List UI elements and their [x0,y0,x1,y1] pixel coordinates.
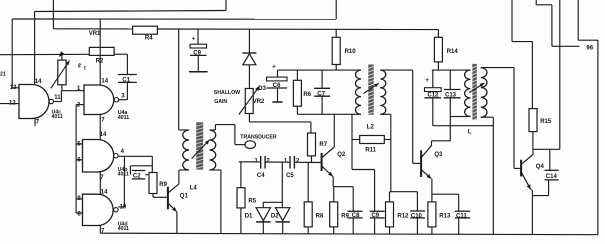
svg-text:R12: R12 [397,213,409,219]
resistor R12 [386,202,410,227]
wire R8 top lead [307,162,309,202]
wire pin13 stub [12,87,19,89]
wire T2 sec to Q4 base [513,68,515,169]
wire C2 right lead [145,174,148,176]
transformer L4 core (laminated core) [196,122,203,169]
wire supply bus left [53,28,132,30]
wire VR1 bottom lead [61,85,63,91]
wire diode top link [263,201,282,203]
wire topright jog D [578,39,598,41]
wire C2 left lead [129,166,131,175]
wire D1 top lead [262,202,264,207]
capacitor C14 [545,170,559,180]
wire C7 bottom lead [321,96,323,114]
wire right edge down [597,40,599,235]
wire pin12 input [0,103,19,105]
resistor R7 [308,133,328,156]
wire C10 bottom lead [416,218,418,234]
wire Q4 collector up [532,149,534,154]
wire topright drop D [577,0,579,40]
wire R9b top lead [333,187,335,202]
resistor R9b [330,202,350,227]
wire C7 top lead [321,70,323,88]
svg-text:+: + [192,36,196,42]
transistor Q3 [421,146,443,179]
resistor R5 [237,188,257,208]
NAND gate U4c [9,79,63,126]
wire junction to pin1 [61,90,84,92]
wire gate U4c pin14 feed [34,12,36,86]
wire T2 sec bottom to rail [492,117,494,234]
wire R13 bottom lead [431,227,433,234]
wire C8 bottom lead [352,218,354,234]
wire L2 sec top to Q3 base [412,70,414,163]
svg-text:Q3: Q3 [434,152,443,158]
wire topright drop A [511,0,513,42]
svg-text:GAIN: GAIN [214,99,227,105]
wire C10 junction [390,191,418,193]
transformer L2 core (laminated core) [368,65,373,115]
wire signal line a [239,161,261,163]
wire staircase horizontal [352,169,375,171]
wire output to junction [60,91,62,102]
svg-text:4011: 4011 [52,114,63,120]
wire C8 top lead [352,187,354,212]
wire T2 primary bottom stub [450,116,462,118]
wire top rail1 drop [225,0,227,11]
transistor Q4 [521,155,544,190]
svg-text:4011: 4011 [118,115,129,121]
capacitor C4 [255,156,271,179]
NAND gate U4a [77,79,129,124]
wire C14 return [532,195,548,197]
wire pin8 stub [76,212,82,214]
transistor Q1 [168,184,189,212]
svg-text:R5: R5 [248,198,256,204]
transformer L2 secondary winding [380,70,386,114]
wire C1 to gate output [126,82,128,99]
wire L2 secondary top [380,69,412,71]
wire R6 bottom lead [296,106,298,114]
wire bus to R10 [335,29,337,37]
svg-text:11: 11 [54,95,61,101]
svg-text:VR2: VR2 [253,99,265,105]
wire R14 bottom lead [437,62,439,70]
wire R10 bottom lead [335,65,337,71]
svg-text:R13: R13 [439,213,451,219]
wire C12 link wire [433,125,494,127]
resistor R4 [133,26,158,41]
wire U4b pin7 to U4d pin14 [99,172,101,194]
wire Q3 emitter to R13 [431,179,433,202]
svg-text:14: 14 [35,79,42,85]
NAND gate U4b [77,132,129,181]
wire L4 secondary up [214,125,216,130]
wire U4c output stub [54,101,62,103]
wire bus to L4 primary [178,29,180,130]
svg-text:C12: C12 [427,93,439,99]
diode D3 [242,53,266,92]
wire topright horizontal B [552,45,580,47]
wire L4 primary bottom [179,169,189,171]
wire transducer branch drop [234,125,236,145]
VR1 wiper adjust arrow [51,61,70,89]
wire T2 secondary bottom [481,116,494,118]
wire U4a pin7 to U4b pin14 [99,115,101,140]
wire R8 bottom lead [307,227,309,234]
wire to R15 [531,42,533,109]
svg-text:R4: R4 [145,35,153,41]
wire U4d pin7 to ground rail [99,226,101,234]
wire ground rail [100,233,598,235]
wire Q4 emitter corner [531,189,532,190]
transistor Q2 [322,147,346,177]
capacitor C7 [314,88,330,97]
wire C14 bottom lead [548,180,550,196]
transducer symbol [245,141,256,149]
capacitor C2 [132,171,146,180]
transformer T2 adjust arrow [469,83,484,93]
wire C1 top lead [126,54,128,74]
wire pin4 output [118,155,152,157]
wire C6 bottom lead [277,88,279,102]
wire L2 primary top stub [352,69,361,71]
transformer L4 secondary winding [210,130,216,170]
resistor R2 [89,47,114,64]
wire pin2 stub [76,104,84,106]
wire signal line c [294,161,321,163]
wire T2 prim bottom [462,116,470,118]
capacitor C12 (electrolytic) [425,78,442,99]
wire T2 primary top rail [432,69,463,71]
wire R5 top lead [240,162,242,188]
NAND gate U4d [77,189,129,234]
wire C6 top lead [277,70,279,77]
capacitor C6 (electrolytic) [267,64,288,89]
wire R6 top lead [296,70,298,80]
svg-text:13: 13 [10,85,17,91]
capacitor C10 [410,211,425,219]
wire rail2 drop [335,0,337,19]
wire C14 top lead [549,149,551,170]
capacitor C11 [455,211,470,219]
wire VR1 top lead [61,54,63,60]
svg-text:R14: R14 [447,49,459,55]
VR1 wiper tick mark [59,51,65,57]
svg-text:R11: R11 [365,147,376,153]
wire U4c pin7 stub [34,119,36,127]
wire R11 right [384,139,391,141]
wire C11 top lead [458,194,460,211]
svg-text:14: 14 [101,79,108,85]
wire D1 bottom lead [262,222,264,234]
svg-text:TRANSDUCER: TRANSDUCER [240,135,277,141]
transformer T2 primary winding [465,70,471,116]
svg-text:R6: R6 [303,92,311,98]
wire bus to C9 [197,29,199,44]
svg-text:4011: 4011 [118,171,129,177]
wire Q3 collector link [432,140,451,142]
wire D2 bottom lead [282,222,284,234]
wire L4 secondary to rail [220,170,222,233]
transformer L4 primary winding [183,130,189,170]
resistor R13 [428,202,451,227]
resistor R11 [360,136,385,154]
wire C9b top lead [374,170,376,212]
svg-text:R10: R10 [345,49,357,55]
wire U4a pin14 feed [99,19,101,85]
wire C12 top lead [432,70,434,88]
wire signal line b [265,161,290,163]
C6 ground bar [272,101,282,103]
svg-text:L2: L2 [367,124,375,130]
wire topright drop C [559,0,561,149]
wire to Q1 base [153,196,168,198]
svg-text:C7: C7 [317,92,325,98]
wire R9 bottom lead [152,194,154,198]
wire supply bus right [157,28,438,31]
potentiometer VR1 body [58,60,66,85]
wire R7 top lead [310,122,312,133]
wire L4 primary top [179,129,189,131]
svg-text:Q4: Q4 [536,164,545,170]
wire C12 bottom lead [432,98,434,126]
svg-text:R7: R7 [319,142,327,148]
wire Q3 collector up [431,141,433,146]
svg-text:D2: D2 [271,214,279,220]
wire L2 secondary bottom stub [380,113,391,115]
wire topright drop B2 [551,5,553,47]
transformer L2 adjust arrow [364,83,379,93]
wire L4 to Q1 collector [178,170,180,184]
wire into transducer [235,144,245,146]
potentiometer VR2 [245,89,265,114]
svg-text:14: 14 [101,189,108,195]
wire signal to diodes [281,162,283,208]
svg-text:C10: C10 [411,213,423,219]
transformer T2 core (laminated core) [472,64,476,121]
svg-text:Q1: Q1 [180,193,189,199]
transformer L4 adjust arrow [192,140,210,159]
wire R9b bottom lead [333,227,335,234]
VR2 wiper adjust arrow [239,86,260,114]
svg-text:L4: L4 [190,185,198,191]
wire C9 bottom lead [197,55,199,71]
wire rail1 horizontal [35,11,226,12]
svg-text:C9: C9 [371,213,379,219]
wire topright drop B [535,0,537,5]
capacitor C1 [118,75,137,84]
capacitor C13 [444,90,461,99]
wire collector rail bottom [297,113,352,115]
wire bus to D3 [248,29,250,53]
wire C13 bottom lead [449,98,451,141]
wire bus drop left [52,0,54,29]
wire C10 top lead [416,192,418,211]
wire Q1 emitter to rail [176,212,178,234]
capacitor C8 [348,211,363,219]
svg-text:21: 21 [0,72,6,78]
wire input rail [75,105,77,213]
wire VR2 to R7 [249,121,311,123]
diode D1 [245,208,271,222]
wire rail2 horizontal [12,18,336,20]
wire C11 junction [432,193,459,195]
svg-text:SHALLOW: SHALLOW [214,90,240,96]
svg-text:C2: C2 [133,174,141,180]
wire Q4 collector rail [533,148,560,150]
svg-text:+: + [425,78,429,84]
wire Q2 emitter down [332,177,334,187]
wire wiper line [0,53,127,56]
wire to transducer branch [215,124,235,126]
svg-text:+: + [272,64,276,70]
svg-text:D1: D1 [245,214,253,220]
svg-text:C1: C1 [122,77,130,83]
wire Q2 collector up [333,114,335,147]
wire topright jog B [536,4,552,6]
svg-text:C11: C11 [456,213,467,219]
wire L2 sec bottom down [390,114,392,191]
wire L4 secondary bottom [210,169,221,171]
wire L4 secondary top [210,129,216,131]
resistor R8 [304,202,324,227]
svg-text:R8: R8 [316,213,324,219]
wire pin10 output [118,206,124,208]
svg-text:VR1: VR1 [89,31,101,37]
wire C9b bottom lead [374,218,376,234]
wire L2 primary bottom stub [352,113,361,115]
wire pin9 stub [76,198,82,200]
wire R7 bottom lead [311,156,313,163]
svg-text:4011: 4011 [118,226,129,232]
svg-text:C9: C9 [193,51,201,57]
svg-text:C5: C5 [286,173,294,179]
wire C2 upper link [130,165,152,167]
wire VR2 bottom [248,114,250,122]
svg-text:14: 14 [100,132,107,138]
wire topright jog A [512,41,532,43]
svg-text:L: L [468,129,472,135]
svg-text:ℓ: ℓ [77,64,81,70]
capacitor C5 [284,156,300,179]
wire T2 prim top [462,69,470,71]
wire pin6 stub [76,159,82,161]
wire to R9 top [151,156,153,172]
capacitor C9 (electrolytic) [190,36,207,56]
wire R15 bottom lead [532,132,534,150]
wire emitter junction [333,186,353,188]
wire L2 primary bottom down [351,114,353,169]
C9 ground bar [189,71,208,73]
wire T2 secondary top [481,67,514,69]
resistor R10 [332,37,356,64]
resistor R15 [529,109,552,132]
svg-text:C13: C13 [445,92,457,98]
wire pin5 stub [76,143,82,145]
wire R11 left [352,139,360,141]
wire D3 to VR2 [248,65,250,89]
resistor R9a [149,173,168,194]
wire U4a output stub [119,99,127,101]
wire R12 bottom lead [389,227,391,234]
svg-text:R9: R9 [159,182,167,188]
wire C13 top lead [449,70,451,89]
svg-text:C4: C4 [257,173,265,179]
svg-text:Q2: Q2 [337,152,346,158]
capacitor C9b [370,211,385,219]
wire Q4 emitter to rail [531,191,533,235]
resistor R14 [434,37,458,62]
wire C11 bottom lead [458,218,460,234]
wire bus to R14 [437,30,439,38]
wire gate U4c pin13 feed [11,19,13,88]
wire Q4 base stub [514,167,521,169]
transformer T2 secondary winding [481,68,487,118]
svg-text:96: 96 [586,46,593,52]
diode D2 [271,208,290,222]
wire pin4 to pin10 [123,156,125,207]
wire R12 top lead [389,192,391,202]
wire collector supply rail [278,69,353,71]
svg-text:t: t [84,66,86,72]
svg-text:R15: R15 [540,119,552,125]
wire R5 bottom lead [240,208,242,234]
wire Q3 base stub [413,162,421,164]
transformer L2 primary winding [355,70,361,114]
resistor R6 [293,80,311,106]
svg-text:C14: C14 [546,174,558,180]
